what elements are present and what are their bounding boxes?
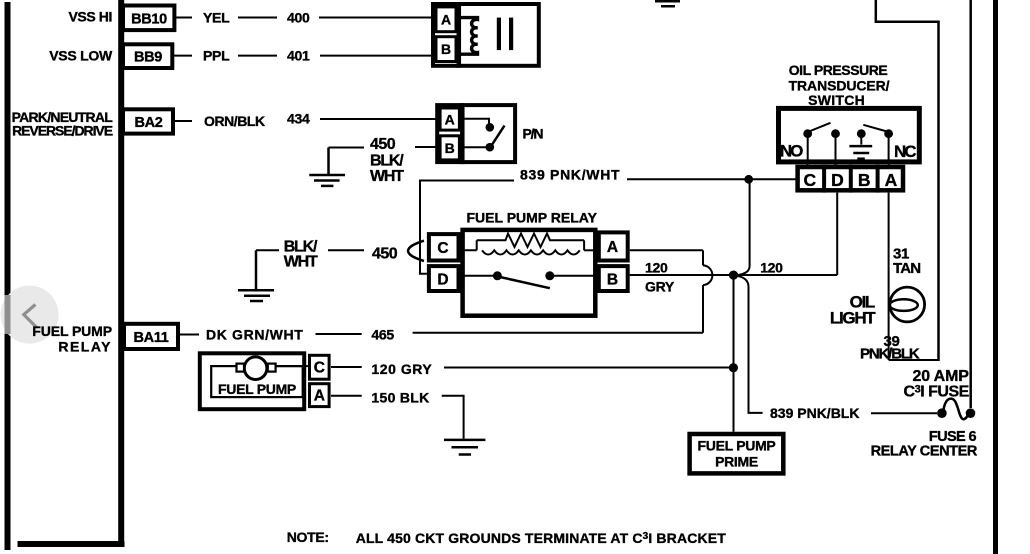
svg-text:D: D (437, 272, 448, 289)
svg-text:A: A (441, 12, 451, 28)
svg-text:401: 401 (287, 48, 310, 64)
svg-text:VSS HI: VSS HI (68, 9, 112, 25)
svg-text:FUEL PUMP: FUEL PUMP (698, 438, 776, 454)
svg-text:DK GRN/WHT: DK GRN/WHT (206, 327, 304, 343)
svg-text:C: C (437, 240, 448, 257)
svg-text:FUEL PUMP RELAY: FUEL PUMP RELAY (467, 210, 598, 226)
svg-text:PRIME: PRIME (715, 454, 758, 470)
svg-text:RELAY CENTER: RELAY CENTER (871, 444, 978, 460)
svg-text:BB9: BB9 (134, 50, 162, 66)
svg-text:WHT: WHT (370, 168, 404, 185)
svg-text:BA2: BA2 (134, 115, 162, 131)
svg-text:A: A (314, 388, 325, 405)
svg-text:A: A (607, 239, 618, 256)
svg-text:VSS LOW: VSS LOW (49, 48, 113, 64)
svg-text:20 AMP: 20 AMP (912, 368, 969, 385)
svg-text:OIL PRESSURE: OIL PRESSURE (789, 62, 888, 78)
svg-text:PPL: PPL (203, 48, 230, 64)
svg-text:RELAY: RELAY (58, 339, 112, 355)
svg-text:450: 450 (370, 136, 396, 153)
svg-text:434: 434 (287, 111, 310, 127)
svg-text:SWITCH: SWITCH (808, 92, 865, 108)
svg-text:B: B (441, 41, 451, 57)
svg-text:NC: NC (894, 142, 916, 161)
svg-text:C: C (803, 170, 816, 190)
svg-text:839 PNK/BLK: 839 PNK/BLK (770, 405, 859, 421)
svg-text:400: 400 (287, 10, 310, 26)
svg-text:B: B (607, 272, 618, 289)
svg-text:NO: NO (780, 142, 803, 161)
svg-text:NOTE:: NOTE: (287, 529, 329, 545)
svg-text:465: 465 (371, 327, 394, 343)
svg-text:WHT: WHT (284, 254, 318, 271)
svg-text:D: D (831, 170, 844, 190)
svg-text:REVERSE/DRIVE: REVERSE/DRIVE (12, 123, 113, 139)
svg-text:FUEL PUMP: FUEL PUMP (218, 381, 296, 397)
svg-text:BB10: BB10 (131, 12, 167, 28)
svg-text:120: 120 (645, 260, 668, 276)
svg-text:P/N: P/N (523, 126, 544, 142)
svg-text:FUEL PUMP: FUEL PUMP (32, 323, 112, 339)
svg-text:C3I FUSE: C3I FUSE (904, 384, 970, 401)
svg-text:BA11: BA11 (133, 330, 168, 346)
svg-text:839 PNK/WHT: 839 PNK/WHT (520, 167, 620, 183)
svg-text:B: B (445, 140, 455, 156)
svg-text:ALL 450 CKT GROUNDS TERMINATE: ALL 450 CKT GROUNDS TERMINATE AT C3I BRA… (356, 530, 727, 546)
svg-text:120 GRY: 120 GRY (371, 361, 432, 377)
svg-text:B: B (858, 170, 871, 190)
svg-text:120: 120 (760, 260, 783, 276)
svg-text:BLK/: BLK/ (370, 152, 404, 169)
svg-text:C: C (314, 360, 325, 377)
svg-text:LIGHT: LIGHT (830, 308, 876, 327)
svg-text:450: 450 (372, 246, 398, 263)
svg-text:ORN/BLK: ORN/BLK (204, 113, 265, 129)
svg-text:A: A (885, 170, 898, 190)
svg-text:A: A (445, 112, 455, 128)
svg-text:GRY: GRY (645, 279, 675, 295)
svg-text:YEL: YEL (203, 10, 230, 26)
svg-text:TAN: TAN (893, 260, 920, 277)
svg-text:150 BLK: 150 BLK (371, 390, 429, 406)
